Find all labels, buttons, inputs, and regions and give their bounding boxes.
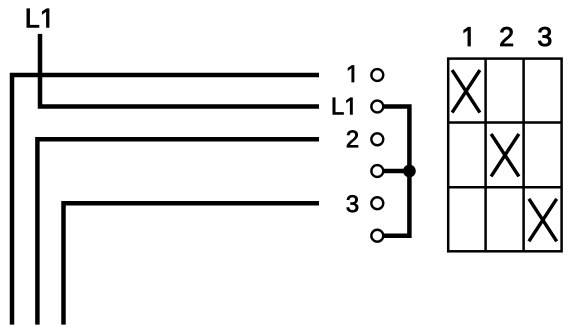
X mark position 3	[529, 199, 557, 242]
wire stub middle contact to bus	[380, 169, 409, 174]
wire to terminal 2	[37, 139, 319, 324]
terminal 1 label	[348, 65, 354, 82]
wire bus joining terminal L1 to middle and bottom contacts	[380, 107, 409, 236]
wire to terminal 1	[12, 75, 319, 325]
table header 2	[500, 27, 512, 46]
wire L1 lead to terminal L1	[40, 34, 319, 107]
terminal 3 label	[347, 195, 358, 212]
terminal L1 label	[333, 98, 353, 115]
terminal middle contact circle	[371, 165, 383, 177]
terminal 2 label	[347, 130, 358, 147]
X mark position 1	[452, 70, 480, 113]
X mark position 2	[491, 134, 519, 177]
table header 1	[464, 27, 471, 46]
terminal 1 contact circle	[371, 69, 383, 81]
terminal L1 contact circle	[371, 101, 383, 113]
terminal 3 contact circle	[371, 197, 383, 209]
table header 3	[538, 27, 551, 46]
node L1 supply label	[27, 9, 49, 28]
wire to terminal 3	[64, 203, 320, 324]
terminal bottom contact circle	[371, 230, 383, 242]
terminal 2 contact circle	[371, 133, 383, 145]
junction dot on bus	[403, 165, 416, 178]
contact table grid	[448, 59, 561, 252]
